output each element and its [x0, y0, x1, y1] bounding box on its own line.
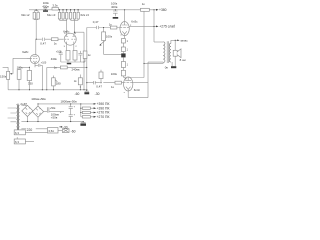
resistor R18 grid leak	[99, 70, 118, 83]
svg-text:+50в: +50в	[50, 107, 56, 110]
svg-text:-60: -60	[75, 92, 80, 96]
resistor R11 330 cathode	[27, 67, 33, 90]
capacitor C7	[78, 51, 82, 62]
svg-text:-30: -30	[95, 92, 100, 96]
svg-text:62к х3: 62к х3	[81, 13, 90, 17]
svg-text:0,47: 0,47	[96, 84, 102, 88]
svg-text:100к: 100к	[17, 66, 24, 70]
capacitor C3 0,47	[40, 38, 46, 46]
resistor R17	[74, 75, 83, 90]
mains transformer T2	[16, 104, 19, 132]
node 220	[21, 128, 47, 132]
svg-text:150к: 150к	[0, 74, 7, 78]
winding 6,3 heater 1	[14, 130, 47, 135]
wire chain to tube2 anode	[123, 77, 126, 79]
svg-text:+380: +380	[159, 8, 167, 12]
node +275 слаб	[156, 25, 175, 29]
svg-text:2хД7: 2хД7	[20, 102, 27, 106]
svg-text:+: +	[74, 105, 76, 108]
transistor tube V1 6p3s output top	[120, 10, 154, 39]
diode bridge D1	[22, 105, 33, 121]
capacitor C10	[44, 107, 64, 120]
capacitor C11	[69, 104, 76, 122]
resistor chain Rk boxes	[121, 38, 128, 77]
fuse F1	[62, 129, 69, 133]
svg-text:-60: -60	[71, 129, 76, 133]
wire +275 feed	[154, 10, 156, 42]
ground G1	[67, 63, 71, 65]
svg-text:100к: 100к	[106, 35, 113, 39]
resistor R6 1k grid	[51, 38, 58, 46]
svg-text:1: 1	[127, 49, 129, 52]
svg-text:100мк+50в: 100мк+50в	[31, 97, 46, 101]
svg-text:330: 330	[28, 82, 33, 86]
resistor R21	[82, 111, 109, 115]
svg-text:0в: 0в	[165, 66, 169, 70]
capacitor C2 100k 400v	[111, 2, 118, 19]
capacitor C4 0,47	[93, 20, 99, 29]
ground G2	[80, 122, 86, 126]
svg-text:0,5А: 0,5А	[49, 129, 55, 133]
svg-text:+270 ПК: +270 ПК	[97, 115, 110, 119]
resistor R10 100k	[17, 66, 30, 90]
svg-text:8 ом: 8 ом	[180, 58, 186, 62]
svg-text:5: 5	[64, 46, 66, 48]
op-amp tube V4 6n8s input	[22, 39, 39, 67]
resistor R5 1k plate	[141, 2, 150, 11]
svg-text:1к: 1к	[142, 2, 146, 6]
op-amp tube V2 6n8s splitter	[63, 30, 77, 51]
diode bridge D2	[32, 104, 43, 122]
resistor R15 1k	[83, 51, 91, 62]
wire primary taps	[8, 108, 17, 122]
transformer T1 output	[163, 40, 175, 66]
wire secondary connections	[21, 105, 83, 121]
svg-text:1к: 1к	[54, 42, 58, 46]
svg-text:1к: 1к	[111, 85, 115, 89]
svg-text:+100: +100	[41, 61, 47, 64]
wire cathode row	[47, 67, 87, 89]
wire splitter plate taps	[74, 28, 86, 92]
wire bottom grid line	[87, 82, 124, 84]
wire grid line output tube V1	[87, 27, 120, 29]
svg-text:к: к	[124, 92, 125, 94]
resistor R22	[82, 115, 109, 119]
wire transformer bottom feed	[144, 62, 163, 64]
svg-text:6,3: 6,3	[15, 131, 19, 135]
svg-text:1в: 1в	[74, 80, 77, 83]
svg-text:1: 1	[127, 40, 129, 43]
potentiometer R16 180 feedback	[52, 76, 61, 90]
wire input grid	[3, 58, 30, 74]
svg-text:0,47: 0,47	[40, 41, 46, 45]
svg-text:0,47: 0,47	[93, 20, 99, 24]
svg-text:1800мк+50в: 1800мк+50в	[61, 99, 78, 103]
speaker LS1	[173, 40, 185, 66]
resistor R20	[82, 106, 109, 110]
winding 6,3 heater 2	[14, 138, 34, 144]
ground rail bottom	[8, 89, 87, 91]
svg-text:400в: 400в	[111, 5, 118, 9]
node 0в tap	[165, 66, 177, 70]
svg-text:+100: +100	[56, 50, 62, 53]
capacitor C9 0,47	[94, 81, 103, 88]
capacitor C5 +100 bypass	[35, 61, 47, 89]
node запас tap	[175, 39, 188, 43]
capacitor C8 bias to ground	[84, 91, 89, 94]
resistor R19 1k	[111, 81, 122, 89]
svg-text:100к: 100к	[111, 72, 118, 76]
svg-text:2: 2	[75, 46, 77, 48]
svg-text:6,3: 6,3	[15, 140, 19, 144]
resistor R12 1k	[54, 66, 81, 72]
node +390	[94, 102, 110, 106]
wire anode long vertical	[143, 11, 145, 77]
svg-text:220: 220	[27, 128, 33, 132]
junction dots	[18, 9, 175, 122]
wire transformer top feed	[154, 41, 163, 43]
svg-text:1к: 1к	[109, 22, 113, 26]
node -30 bottom	[59, 125, 68, 129]
capacitor C6 cathode	[56, 50, 63, 62]
resistor R14	[73, 51, 77, 63]
svg-text:62к х2: 62к х2	[21, 13, 30, 17]
wire output bus	[81, 104, 82, 117]
node +380	[154, 8, 167, 12]
resistor R8 100k grid leak	[99, 28, 121, 55]
wire coupling line stage1	[36, 38, 63, 40]
svg-text:3: 3	[75, 33, 77, 35]
resistor group R3 62k x3	[47, 10, 68, 34]
potentiometer R9 150k	[0, 71, 12, 89]
wire top rail	[29, 9, 154, 11]
resistor R2 3,3k	[52, 3, 58, 10]
svg-text:+50в: +50в	[51, 115, 58, 119]
wire cathode bus	[61, 61, 84, 63]
svg-text:6н8с: 6н8с	[22, 50, 29, 54]
resistor R13	[66, 51, 70, 63]
svg-text:430к: 430к	[51, 57, 58, 61]
svg-text:3,3к: 3,3к	[52, 3, 58, 7]
svg-text:240мк: 240мк	[72, 68, 81, 72]
svg-text:1: 1	[127, 63, 129, 66]
switch S1	[47, 128, 62, 133]
svg-text:6п3с: 6п3с	[131, 19, 138, 23]
wire plus bus top	[38, 103, 94, 105]
svg-text:+: +	[74, 113, 76, 116]
svg-text:180: 180	[56, 82, 61, 86]
svg-text:+275 слаб: +275 слаб	[159, 25, 175, 29]
svg-text:1к: 1к	[88, 53, 92, 57]
resistor R7 1k grid stopper	[109, 22, 117, 29]
wire feedback tap	[148, 62, 163, 98]
svg-text:62к х3: 62к х3	[47, 13, 56, 17]
svg-text:к: к	[121, 35, 122, 37]
transistor tube V3 6p3s output bottom	[124, 77, 149, 98]
capacitor C1 100k 400v	[42, 1, 49, 12]
svg-text:6п3с: 6п3с	[134, 88, 141, 92]
svg-text:запас: запас	[180, 39, 188, 43]
resistor R1 62k x2 group	[21, 10, 39, 39]
resistor group R4 62k x3	[70, 10, 90, 34]
